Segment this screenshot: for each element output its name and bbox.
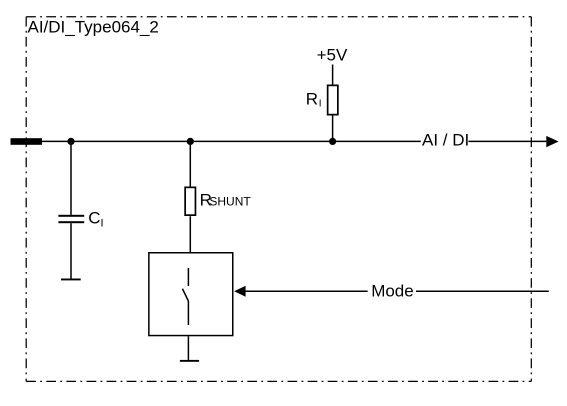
svg-text:+5V: +5V xyxy=(317,45,348,64)
switch top contact xyxy=(187,268,189,286)
wire: CI to bottom termination xyxy=(70,223,72,278)
node A (junction dot left) xyxy=(67,138,74,145)
capacitor CI bottom plate xyxy=(58,221,84,223)
external terminal thick bar xyxy=(11,138,43,145)
wire: Mode arrow to label xyxy=(245,290,368,292)
switch blade xyxy=(182,289,188,301)
wire: RSHUNT bottom to switch box xyxy=(189,216,191,252)
capacitor CI top plate xyxy=(58,215,84,217)
Mode arrowhead (pointing left into box) xyxy=(234,286,245,297)
svg-text:I: I xyxy=(101,218,104,230)
ground bar under CI xyxy=(61,279,81,281)
svg-text:C: C xyxy=(88,208,100,227)
wire: main horizontal net (bar to AI/DI label) xyxy=(42,140,421,142)
svg-text:R: R xyxy=(306,90,318,109)
switch box U1 xyxy=(149,253,233,336)
svg-text:SHUNT: SHUNT xyxy=(209,195,251,209)
svg-text:AI/DI_Type064_2: AI/DI_Type064_2 xyxy=(28,18,159,37)
wire: node A down to CI xyxy=(70,141,72,215)
wire: AI/DI label to output arrow xyxy=(468,140,546,142)
wire: RI bottom to node C xyxy=(332,115,334,141)
svg-text:AI / DI: AI / DI xyxy=(422,131,469,150)
output arrowhead (right, pointing right) xyxy=(546,136,558,147)
resistor RSHUNT body xyxy=(185,187,195,215)
svg-text:I: I xyxy=(319,99,322,110)
dash-dot frame border xyxy=(26,16,531,18)
wire: switch box to ground xyxy=(187,336,189,360)
node C (junction dot under RI) xyxy=(329,138,336,145)
wire: +5V to RI top xyxy=(332,65,334,86)
ground bar xyxy=(180,360,199,362)
wire: Mode label to right xyxy=(416,290,549,292)
node B (junction dot middle) xyxy=(187,138,194,145)
resistor RI body xyxy=(328,85,338,114)
wire: node B down to RSHUNT xyxy=(189,141,191,186)
switch bottom contact xyxy=(187,301,189,325)
svg-text:Mode: Mode xyxy=(371,281,414,300)
